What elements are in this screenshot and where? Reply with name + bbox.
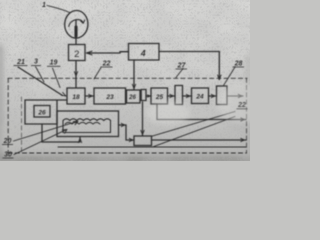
svg-text:1: 1 [42,2,46,9]
svg-text:27: 27 [177,63,187,70]
svg-text:4: 4 [140,48,146,58]
svg-text:18: 18 [72,94,80,101]
svg-text:22: 22 [102,60,111,67]
svg-text:3: 3 [34,59,38,66]
svg-text:26: 26 [128,95,136,101]
svg-text:19: 19 [50,60,58,67]
svg-text:23: 23 [105,94,114,101]
svg-text:20: 20 [3,138,12,145]
svg-text:2: 2 [74,49,79,60]
svg-text:25: 25 [155,94,164,101]
svg-text:28: 28 [234,61,243,68]
svg-text:30: 30 [4,152,12,159]
svg-text:21: 21 [16,59,25,66]
svg-text:26: 26 [37,110,46,117]
svg-text:24: 24 [195,94,204,101]
svg-text:22: 22 [237,102,246,109]
